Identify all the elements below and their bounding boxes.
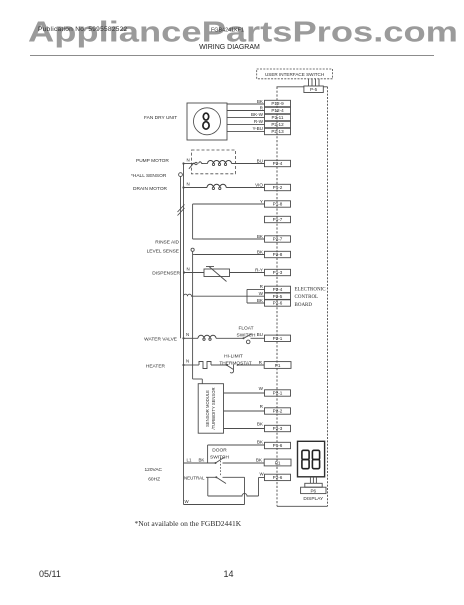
svg-text:WIRING DIAGRAM: WIRING DIAGRAM [199, 44, 260, 51]
svg-text:DISPENSER: DISPENSER [152, 271, 180, 277]
svg-text:CONTROL: CONTROL [295, 295, 319, 300]
svg-text:P2-6: P2-6 [273, 301, 283, 306]
svg-text:*Not available on the FGBD2441: *Not available on the FGBD2441K [135, 519, 242, 528]
svg-text:P2-12: P2-12 [271, 122, 284, 127]
svg-text:VIO: VIO [255, 182, 263, 187]
svg-text:N: N [187, 267, 190, 272]
svg-text:05/11: 05/11 [39, 569, 61, 579]
svg-text:BK: BK [257, 422, 264, 427]
svg-text:BK: BK [256, 457, 263, 462]
svg-text:Publication No: 5995582522: Publication No: 5995582522 [38, 26, 128, 33]
svg-text:N: N [187, 182, 190, 187]
svg-text:FGB4241KF1: FGB4241KF1 [211, 28, 244, 34]
svg-text:P1-6: P1-6 [273, 443, 283, 448]
svg-text:P2-5: P2-5 [273, 294, 283, 299]
svg-text:N: N [186, 359, 189, 364]
svg-text:P2-6: P2-6 [273, 475, 283, 480]
svg-text:Y: Y [260, 199, 263, 204]
svg-text:SWITCH: SWITCH [210, 455, 229, 461]
svg-text:Y-BU: Y-BU [252, 126, 263, 131]
svg-text:P2-11: P2-11 [272, 115, 284, 120]
svg-text:FLOAT: FLOAT [238, 326, 253, 332]
svg-text:P12-4: P12-4 [271, 108, 284, 113]
svg-text:DRAIN MOTOR: DRAIN MOTOR [133, 186, 168, 192]
svg-text:120VAC: 120VAC [144, 467, 162, 473]
svg-text:R-Y: R-Y [255, 267, 263, 272]
svg-text:USER INTERFACE SWITCH: USER INTERFACE SWITCH [265, 72, 324, 77]
svg-text:BOARD: BOARD [295, 303, 313, 308]
svg-text:BK: BK [257, 298, 264, 303]
svg-text:P1-2: P1-2 [273, 185, 283, 190]
svg-text:P1: P1 [275, 363, 281, 368]
svg-text:P12-9: P12-9 [271, 101, 284, 106]
svg-text:SENSOR MODULE: SENSOR MODULE [205, 390, 210, 427]
svg-text:/TURBIDITY SENSOR: /TURBIDITY SENSOR [211, 387, 216, 429]
svg-text:P2-2: P2-2 [273, 409, 283, 414]
svg-text:LEVEL SENSE: LEVEL SENSE [147, 249, 179, 255]
svg-text:BK: BK [257, 99, 264, 104]
svg-text:60HZ: 60HZ [148, 477, 160, 483]
svg-text:PUMP MOTOR: PUMP MOTOR [136, 158, 169, 164]
svg-text:N: N [187, 158, 190, 163]
svg-text:FAN DRY UNIT: FAN DRY UNIT [144, 115, 177, 121]
svg-text:P2-3: P2-3 [273, 426, 283, 431]
svg-text:P1: P1 [275, 460, 281, 465]
svg-text:P2-1: P2-1 [273, 391, 283, 396]
svg-text:P2-4: P2-4 [273, 287, 283, 292]
svg-text:DOOR: DOOR [212, 448, 227, 454]
svg-text:BK: BK [257, 234, 264, 239]
svg-text:BK: BK [257, 249, 264, 254]
svg-text:RINSE AID: RINSE AID [155, 240, 179, 246]
svg-text:P2-1: P2-1 [273, 336, 283, 341]
svg-text:ELECTRONIC: ELECTRONIC [295, 288, 327, 293]
svg-text:BU: BU [257, 332, 263, 337]
svg-text:P-5: P-5 [310, 87, 318, 92]
svg-text:W: W [259, 291, 264, 296]
svg-text:*HALL SENSOR: *HALL SENSOR [131, 173, 167, 179]
svg-text:HEATER: HEATER [146, 363, 166, 369]
svg-text:P2-8: P2-8 [273, 252, 283, 257]
svg-text:BU: BU [257, 158, 263, 163]
svg-text:WATER VALVE: WATER VALVE [144, 336, 177, 342]
svg-text:BK: BK [199, 458, 205, 463]
svg-text:P2-4: P2-4 [273, 161, 283, 166]
svg-text:L1: L1 [187, 458, 192, 463]
svg-text:DISPLAY: DISPLAY [303, 496, 324, 502]
svg-text:14: 14 [224, 569, 234, 579]
svg-text:P1-8: P1-8 [273, 202, 283, 207]
svg-text:R-W: R-W [254, 119, 264, 124]
svg-text:P2-13: P2-13 [271, 129, 284, 134]
svg-text:HI-LIMIT: HI-LIMIT [224, 354, 243, 360]
svg-text:P1-3: P1-3 [273, 270, 283, 275]
svg-text:P2-7: P2-7 [273, 237, 283, 242]
svg-text:BK-W: BK-W [251, 112, 264, 117]
svg-text:N: N [186, 332, 189, 337]
svg-text:SWITCH: SWITCH [237, 333, 256, 339]
svg-text:NEUTRAL: NEUTRAL [184, 475, 205, 480]
svg-text:P1-7: P1-7 [273, 217, 283, 222]
svg-text:P6: P6 [310, 488, 316, 493]
svg-text:BK: BK [257, 439, 264, 444]
svg-text:W: W [259, 386, 264, 391]
